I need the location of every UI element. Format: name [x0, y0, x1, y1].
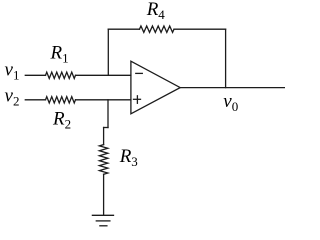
op-amp U1: [131, 61, 180, 114]
wire feedback left vertical from node A: [107, 29, 109, 75]
svg-text:R1: R1: [50, 42, 69, 65]
resistor R2: [46, 97, 76, 103]
svg-text:v1: v1: [5, 60, 20, 83]
wire output: [180, 87, 284, 89]
wire down to R3: [103, 128, 105, 145]
ground: [92, 215, 113, 226]
wire feedback top left segment: [108, 28, 139, 30]
wire v1 input lead: [25, 74, 45, 76]
wire jog to R3 column: [104, 127, 108, 129]
wire R3 to ground: [103, 174, 105, 215]
wire feedback top right segment: [174, 28, 226, 30]
svg-text:v0: v0: [223, 91, 238, 114]
resistor R3: [99, 145, 107, 175]
svg-text:R3: R3: [119, 146, 138, 169]
svg-text:R4: R4: [146, 0, 166, 22]
wire noninverting tap vertical from node B: [107, 100, 109, 128]
resistor R1: [46, 72, 76, 78]
wire feedback right vertical: [225, 29, 227, 87]
wire R1 to inverting input: [76, 74, 131, 76]
svg-text:R2: R2: [52, 108, 71, 131]
wire R2 to noninverting input: [76, 99, 131, 101]
resistor R4: [140, 26, 175, 32]
svg-text:v2: v2: [5, 86, 20, 109]
wire v2 input lead: [25, 99, 45, 101]
